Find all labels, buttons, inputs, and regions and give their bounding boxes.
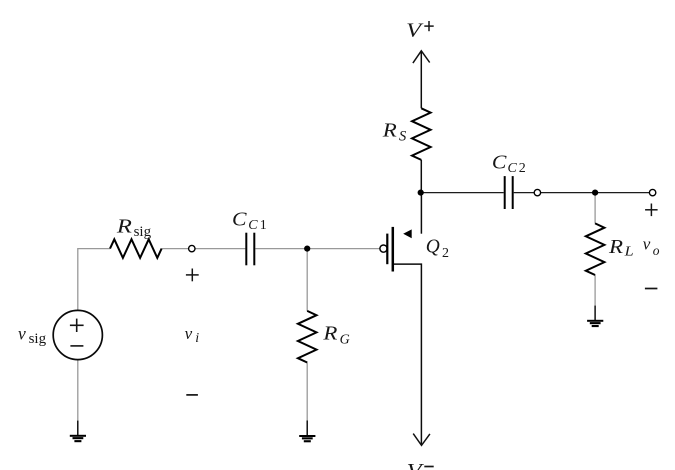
wire C_C1 to node A [255,248,307,250]
plus sign of v_i port [186,269,199,282]
capacitor C_C1 [246,233,254,266]
transistor Q2 source arrow [403,229,412,238]
wire C_C2 to terminal circle [514,192,535,194]
svg-text:C: C [232,208,247,230]
node A junction dot [304,246,310,252]
svg-text:sig: sig [29,331,47,347]
svg-text:S: S [399,128,407,144]
wire node A to gate of Q2 [307,248,380,250]
wire R_S bottom to node B [420,160,422,193]
ground below v_sig [70,421,86,443]
wire R_S top to V+ arrow [420,52,422,108]
ground below R_G [299,421,315,443]
minus sign of v_i port [186,394,198,396]
minus sign of v_o port [645,288,658,290]
svg-text:2: 2 [519,161,526,176]
node C junction dot [592,190,598,196]
wire R_G to ground [306,363,308,421]
label C_C2 [492,152,526,176]
label v_sig [18,324,47,347]
V+ supply arrow [413,51,430,63]
svg-text:v: v [643,234,651,253]
wire node C down to R_L [594,193,596,224]
plus sign of v_o port [645,204,658,217]
svg-text:L: L [624,245,634,260]
resistor R_S [412,108,431,160]
wire v_sig bottom lead to ground [77,360,79,421]
svg-text:C: C [508,161,518,176]
wire node B to C_C2 [421,192,504,194]
label R_S [382,120,407,145]
resistor R_G [298,311,317,363]
label Q2 [426,236,449,262]
svg-text:Q: Q [426,236,441,258]
svg-text:sig: sig [134,224,152,240]
svg-text:v: v [18,324,26,344]
wire R_L to ground [594,275,596,306]
svg-text:i: i [195,331,199,346]
resistor R_sig [110,239,162,258]
voltage source v_sig [53,310,102,359]
svg-text:C: C [248,218,258,233]
svg-text:R: R [382,120,397,142]
label V+ supply [406,20,434,42]
node B junction dot [418,190,424,196]
svg-text:R: R [116,216,132,238]
wire drain lead of Q2 down to V- arrow [393,264,422,444]
svg-text:2: 2 [442,246,449,261]
label v_o [643,234,660,257]
label R_G [322,323,349,348]
svg-text:1: 1 [260,218,267,233]
ground below R_L [587,306,603,328]
transistor Q2 gate bar [386,234,388,265]
output terminal open circle [649,189,655,195]
svg-text:G: G [340,333,350,348]
label R_sig [116,216,152,240]
label v_i [185,324,200,346]
label V- supply (clipped at bottom) [407,460,434,470]
wire v_sig top lead up and right to R_sig [78,249,110,311]
wire node A down to R_G [306,249,308,311]
svg-text:o: o [653,243,660,258]
resistor R_L [586,223,605,275]
transistor Q2 gate bubble [380,245,387,252]
capacitor C_C2 [505,176,513,209]
svg-text:R: R [322,323,337,345]
input terminal open circle [189,245,195,251]
wire input terminal to C_C1 [195,248,245,250]
transistor Q2 channel bar [392,227,395,272]
label R_L [608,236,634,260]
svg-text:v: v [185,324,193,343]
terminal open circle after C_C2 [534,189,540,195]
wire source lead of Q2 up to node B [420,193,422,234]
label C_C1 [232,208,267,233]
svg-text:R: R [608,236,623,258]
wire terminal to node C to output terminal [541,192,650,194]
wire R_sig to input terminal [162,248,189,250]
V- supply arrow [413,434,430,446]
svg-text:C: C [492,152,507,174]
